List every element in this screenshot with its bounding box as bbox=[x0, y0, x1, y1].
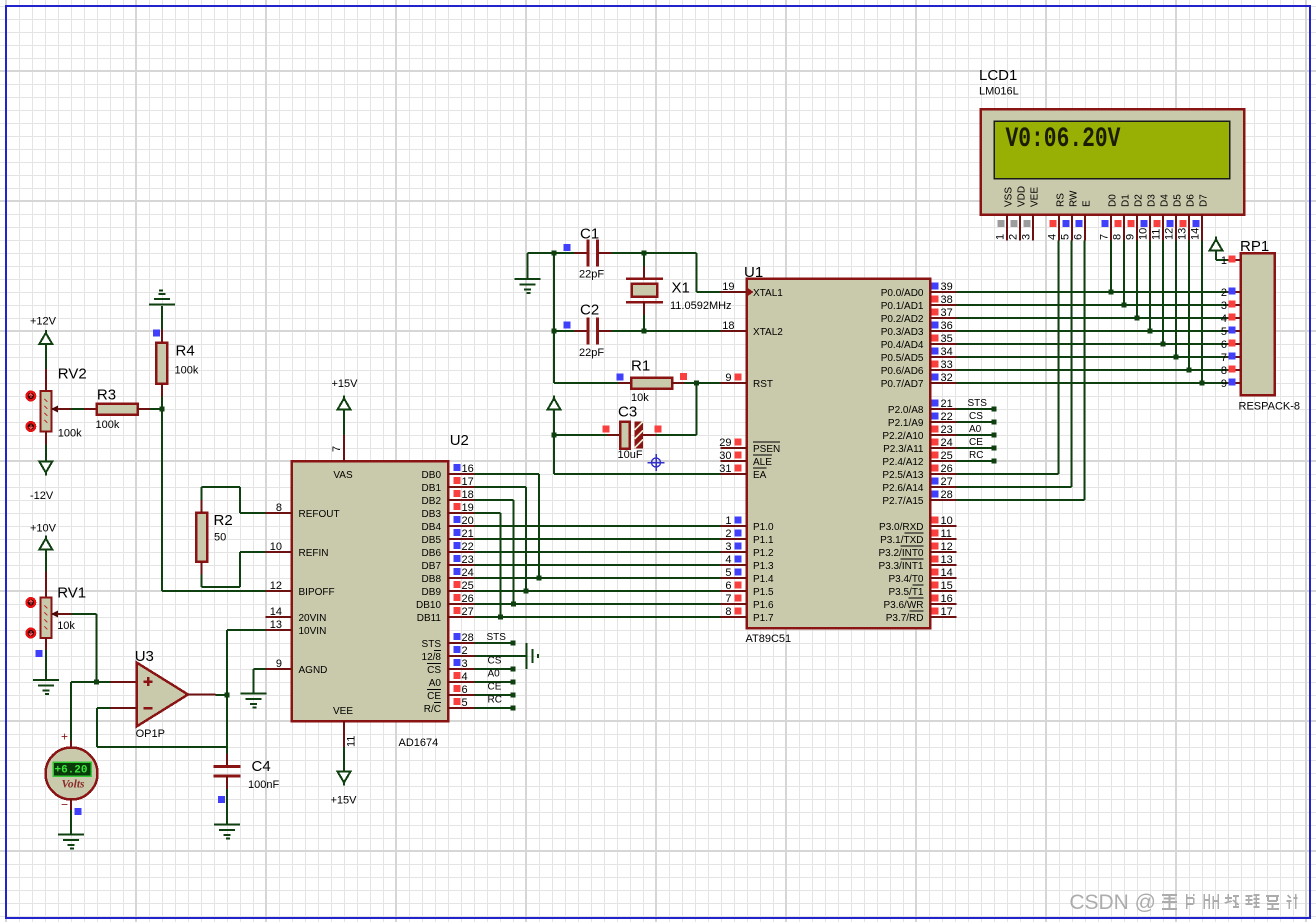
U2 pin 11 VEE stub bbox=[344, 721, 358, 747]
wire ground to R4 bbox=[161, 306, 163, 343]
U1 XTAL1 pin marker bbox=[747, 287, 754, 297]
wire op-amp output node bbox=[188, 694, 227, 697]
blue marker C2 bbox=[564, 322, 571, 329]
power terminal -12V bbox=[30, 462, 54, 503]
U1 pin 18 XTAL2 stub bbox=[721, 320, 747, 332]
wire feedback to - input bbox=[97, 708, 227, 747]
net 12/8 wire to ground (U2) bbox=[475, 655, 527, 657]
wire VCC down to EA bbox=[554, 435, 721, 474]
wire bus DB4-DB11 to P1.0-P1.7 bbox=[475, 526, 721, 617]
wire bus P0.0-P0.7 to RP1 2-9 bbox=[957, 292, 1228, 383]
MCU U1 AT89C51 body bbox=[744, 264, 930, 645]
ground XTAL caps bbox=[515, 253, 555, 293]
resistor pack RP1 body bbox=[1239, 238, 1301, 413]
wire DB2 to DB10 column bbox=[475, 500, 514, 604]
junction DB3/DB11 bbox=[498, 615, 503, 620]
wire R2 bottom loop to REFIN bbox=[202, 552, 266, 587]
U2 pin 7 VAS stub bbox=[331, 435, 344, 461]
wire LCD D0-D7 columns to P0 bus bbox=[1111, 241, 1202, 384]
U2 right pin stubs bbox=[448, 463, 475, 709]
ADC U2 AD1674 body bbox=[292, 432, 469, 749]
U1 pin 30 ALE stub bbox=[719, 450, 746, 462]
op-amp U3 bbox=[135, 648, 188, 740]
wire AGND to ground bbox=[254, 669, 266, 694]
junction output node bbox=[225, 693, 230, 698]
junction DB0/DB8 bbox=[537, 576, 542, 581]
wire C4 to ground bbox=[226, 776, 228, 825]
power terminal VCC (reset) bbox=[548, 396, 561, 436]
wire RV2 to -12V bbox=[45, 432, 47, 462]
U1 P0 pin stubs 39-32 bbox=[930, 281, 957, 384]
wire +10V to RV1 bbox=[45, 550, 47, 598]
U1 P1 pin stubs 1-8 bbox=[721, 515, 747, 618]
ground voltmeter bbox=[58, 835, 84, 849]
resistor R3 bbox=[84, 387, 150, 432]
U1 pin 31 EA stub bbox=[719, 463, 746, 475]
junction C2 left bbox=[552, 329, 557, 334]
blue marker voltmeter bottom bbox=[75, 808, 82, 815]
potentiometer RV2 bbox=[27, 366, 87, 440]
junctions D0-D7 on P0 bus bbox=[1109, 290, 1205, 386]
ground AGND bbox=[241, 694, 267, 708]
net STS wire (U2) bbox=[475, 632, 516, 646]
wire RV1 wiper to op-amp + input bbox=[57, 614, 137, 682]
capacitor C1 bbox=[554, 226, 612, 281]
red marker C3 left bbox=[603, 426, 610, 433]
junction node A bbox=[160, 407, 165, 412]
red marker R1 right bbox=[680, 373, 687, 380]
wire voltmeter to ground bbox=[70, 799, 72, 835]
net CE wire (U1) bbox=[957, 437, 997, 451]
origin marker (blue crosshair) bbox=[648, 454, 665, 471]
potentiometer RV1 bbox=[27, 585, 87, 639]
net CS wire (U1) bbox=[957, 411, 997, 425]
wire RV2 wiper to R3 bbox=[57, 408, 84, 410]
net STS wire (U1) bbox=[957, 398, 997, 412]
resistor R1 bbox=[619, 358, 685, 405]
U1 pin 29 PSEN stub bbox=[719, 437, 746, 449]
resistor R4 bbox=[156, 343, 199, 384]
wire R2 top loop to REFOUT bbox=[202, 487, 266, 513]
ground C4 bbox=[214, 825, 240, 839]
U1 pin 9 RST stub bbox=[721, 372, 747, 384]
junction crystal top bbox=[642, 251, 647, 256]
wire node A down to BIPOFF bbox=[162, 409, 266, 591]
LCD LCD1 body bbox=[981, 109, 1245, 215]
wire P2.5 to LCD RS bbox=[957, 241, 1059, 475]
wire R3 to node A (R4 bottom) bbox=[150, 408, 162, 410]
blue marker R1 left bbox=[617, 374, 624, 381]
U1 pin 19 XTAL1 stub bbox=[721, 281, 747, 293]
ground RV1 bbox=[33, 680, 59, 694]
LCD pin names bbox=[1004, 186, 1210, 207]
junction DB1/DB9 bbox=[524, 589, 529, 594]
wire C2 column down to R1 bbox=[554, 331, 619, 383]
wire R4 bottom to node A bbox=[161, 384, 163, 410]
wire RST node down to C3 bbox=[659, 383, 697, 435]
U1 right pin names bbox=[878, 288, 923, 624]
blue marker C4 bottom bbox=[218, 796, 225, 803]
ground above R4 bbox=[149, 291, 175, 305]
power terminal +15V above U2 bbox=[332, 378, 359, 435]
wire P2.7 to LCD E bbox=[957, 241, 1085, 501]
wire R1 right to RST bbox=[685, 382, 721, 384]
net CS wire (U2) bbox=[475, 656, 516, 672]
net RC wire (U2) bbox=[475, 695, 516, 711]
wire C2 right to XTAL2 bbox=[612, 330, 721, 332]
wire + node to voltmeter bbox=[71, 682, 97, 749]
wire output node down to feedback and C4 bbox=[226, 695, 228, 767]
power terminal RP1 pin1 bbox=[1210, 237, 1228, 261]
power terminal +12V bbox=[30, 316, 57, 345]
ground 12/8 (rotated) bbox=[527, 643, 539, 669]
wire output node up to 10VIN bbox=[227, 630, 266, 695]
junction C1 left bbox=[552, 251, 557, 256]
LCD pin stubs 1-14 bbox=[995, 215, 1203, 241]
wire C1-C2 column bbox=[553, 253, 555, 331]
U1 P2 pin stubs 21-28 bbox=[930, 398, 957, 501]
junction RST node bbox=[694, 381, 699, 386]
junction + input node bbox=[94, 680, 99, 685]
blue marker RV1 bottom bbox=[36, 650, 43, 657]
U1 P3 pin stubs 10-17 bbox=[930, 515, 957, 618]
U2 left pin stubs bbox=[266, 502, 292, 670]
crystal X1 bbox=[626, 253, 732, 331]
net CE wire (U2) bbox=[475, 682, 516, 698]
voltmeter bbox=[46, 748, 98, 800]
junction DB2/DB10 bbox=[511, 602, 516, 607]
U1 left pin names bbox=[753, 288, 783, 624]
power terminal +15V below U2 bbox=[331, 747, 358, 807]
net A0 wire (U1) bbox=[957, 424, 997, 438]
wire C1 right to XTAL1 bbox=[612, 253, 721, 292]
wire P2.6 to LCD RW bbox=[957, 241, 1072, 488]
capacitor C4 bbox=[214, 758, 280, 791]
blue marker R4 top bbox=[153, 330, 160, 337]
wire DB3 to DB11 column bbox=[475, 513, 501, 617]
RP1 pin stubs 1-9 bbox=[1221, 255, 1241, 390]
capacitor C2 bbox=[554, 302, 612, 360]
junction C3 left bbox=[552, 433, 557, 438]
wire RV1 bottom to ground bbox=[45, 638, 47, 680]
LCD LCD1 labels bbox=[979, 67, 1019, 98]
wire DB0 to DB8 column bbox=[475, 474, 540, 578]
net RC wire (U1) bbox=[957, 450, 997, 464]
wire +12V to RV2 bbox=[45, 344, 47, 391]
net A0 wire (U2) bbox=[475, 669, 516, 685]
U2 pin names bbox=[299, 470, 442, 717]
capacitor C3 (polarized) bbox=[554, 404, 659, 462]
wire DB1 to DB9 column bbox=[475, 487, 527, 591]
junction crystal bottom bbox=[642, 329, 647, 334]
watermark bbox=[1069, 891, 1297, 914]
blue marker C1 bbox=[564, 244, 571, 251]
red marker C3 right bbox=[655, 426, 662, 433]
resistor R2 bbox=[196, 512, 233, 562]
power terminal +10V bbox=[30, 523, 57, 550]
